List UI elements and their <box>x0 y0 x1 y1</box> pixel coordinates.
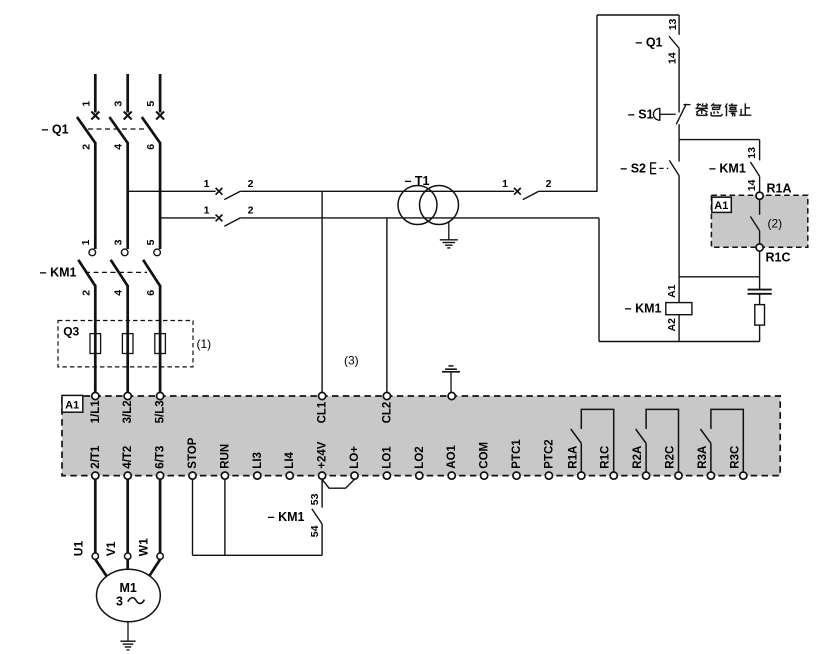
wire feed 1 to transformer <box>240 190 514 192</box>
svg-text:LI4: LI4 <box>284 451 296 468</box>
contactor coil KM1 <box>666 303 692 315</box>
wire control feed 2 corner down <box>598 218 600 342</box>
fuse-switch F4 terminal 1 <box>216 215 223 222</box>
KM1 53-54 blade <box>312 509 322 524</box>
svg-text:14: 14 <box>667 52 679 64</box>
wire control riser up <box>596 15 598 192</box>
svg-text:1: 1 <box>502 178 508 190</box>
svg-text:A1: A1 <box>714 200 728 212</box>
svg-text:2/T1: 2/T1 <box>90 445 102 469</box>
svg-text:CL2: CL2 <box>381 402 393 424</box>
wire run-stop bottom <box>193 554 323 556</box>
svg-text:– S1: – S1 <box>628 108 654 122</box>
wire R2A stub <box>645 443 647 472</box>
terminal COM <box>481 472 488 479</box>
svg-text:– KM1: – KM1 <box>268 510 305 524</box>
wire KM1 coil to bottom run <box>678 315 680 342</box>
contactor KM1 pole 3 blade <box>143 260 160 286</box>
svg-text:53: 53 <box>309 493 321 505</box>
terminal LO+ <box>351 472 358 479</box>
svg-text:PTC2: PTC2 <box>543 439 555 468</box>
relay contact R3 bracket <box>711 409 743 472</box>
svg-text:STOP: STOP <box>187 437 199 468</box>
wire STOP down <box>192 479 194 555</box>
svg-text:LO1: LO1 <box>381 446 393 469</box>
svg-text:3: 3 <box>112 239 124 245</box>
svg-text:3/L2: 3/L2 <box>122 400 134 423</box>
fuse-switch F5 terminal 1 <box>514 188 521 195</box>
svg-text:CL1: CL1 <box>317 401 329 423</box>
svg-text:RUN: RUN <box>219 444 231 469</box>
terminal 2/T1 <box>92 472 99 479</box>
svg-text:LO+: LO+ <box>349 446 361 469</box>
svg-text:(1): (1) <box>197 337 212 351</box>
svg-text:R2A: R2A <box>632 446 644 469</box>
motor terminal W1 <box>157 553 163 559</box>
terminal CL1 <box>319 392 326 399</box>
svg-text:4: 4 <box>113 144 125 150</box>
resistor R1 <box>755 305 765 326</box>
svg-text:14: 14 <box>746 179 758 191</box>
relay block A1 label <box>712 197 732 212</box>
terminal STOP <box>189 472 196 479</box>
terminal LI3 <box>254 472 261 479</box>
wire Q1 aux to S1 <box>678 48 680 112</box>
breaker Q1 pole 1 blade <box>77 117 95 143</box>
wire V1 into motor <box>126 559 129 569</box>
capacitor C1 <box>748 289 772 291</box>
terminal R3C <box>740 472 747 479</box>
transformer T1 secondary winding <box>420 186 459 225</box>
A1 block label <box>62 395 83 412</box>
fuse F3 in Q3 <box>155 334 166 354</box>
wire phase 2 KM1 to drive input <box>126 285 129 392</box>
terminal R1C <box>610 472 617 479</box>
svg-text:A1: A1 <box>666 284 678 298</box>
terminal R2C <box>675 472 682 479</box>
motor terminal V1 <box>125 553 131 559</box>
wire phase 3 Q1 to KM1 <box>159 142 162 249</box>
pushbutton S2 link <box>652 167 669 169</box>
terminal 4/T2 <box>124 472 131 479</box>
svg-text:+24V: +24V <box>317 441 329 469</box>
breaker Q1 pole 3 blade <box>142 117 160 143</box>
wire control feed 1 from phase 2 <box>128 190 216 192</box>
wire control top run <box>597 14 679 16</box>
pushbutton S1 fixed contact tick <box>684 104 691 106</box>
svg-text:V1: V1 <box>104 541 118 556</box>
wire R1C down <box>759 251 761 289</box>
terminal PTC1 <box>513 472 520 479</box>
svg-text:R3C: R3C <box>729 446 741 469</box>
breaker Q1 pole 1 terminal 1 <box>91 112 99 120</box>
pushbutton S2 blade <box>669 160 679 175</box>
wire RUN down <box>224 479 226 555</box>
svg-text:COM: COM <box>479 442 491 469</box>
svg-text:6: 6 <box>145 290 157 296</box>
svg-text:R3A: R3A <box>697 446 709 469</box>
fuse-switch F3 terminal 1 <box>216 188 223 195</box>
Q1 aux contact blade <box>669 36 679 48</box>
terminal R1C <box>756 244 763 251</box>
wire cross junction <box>679 276 760 278</box>
contactor KM1 pole 1 blade <box>78 260 95 286</box>
jumper +24V to LO+ <box>322 479 354 488</box>
breaker Q1 pole 2 blade <box>109 117 127 143</box>
svg-text:R1A: R1A <box>567 446 579 469</box>
relay contact R2 bracket <box>646 409 678 472</box>
wire capacitor to resistor <box>759 294 761 305</box>
svg-text:A2: A2 <box>666 318 678 332</box>
motor AC wave <box>128 598 145 604</box>
wire +24V down <box>321 479 323 507</box>
wire feed 2 to control loop <box>240 217 599 219</box>
wire junction to S2 <box>678 140 680 162</box>
wire R1A to relay contact <box>759 199 761 215</box>
terminal 3/L2 <box>124 392 131 399</box>
svg-text:13: 13 <box>746 147 758 159</box>
terminal R1A <box>756 192 763 199</box>
wire phase 1 KM1 to drive input <box>94 285 97 392</box>
wire CL1 drop <box>321 191 323 392</box>
wire junction to KM1 aux branch <box>679 139 760 141</box>
wire resistor to bottom run <box>759 325 761 341</box>
terminal LO1 <box>383 472 390 479</box>
terminal R3A <box>707 472 714 479</box>
contactor KM1 pole 1 terminal 1 <box>89 249 96 256</box>
svg-text:2: 2 <box>80 290 92 296</box>
fuse-switch F4 blade <box>224 218 240 226</box>
fuse holder Q3 box <box>58 321 193 367</box>
fuse F1 in Q3 <box>90 334 101 354</box>
pushbutton S1 link <box>661 113 676 115</box>
svg-text:3: 3 <box>113 101 125 107</box>
wire control bottom run <box>599 341 760 343</box>
relay contact R3 blade <box>700 429 711 443</box>
caption emergency stop <box>696 103 752 116</box>
fuse F2 in Q3 <box>122 334 133 354</box>
wire R1A stub <box>580 443 582 472</box>
soft starter block A1 <box>62 396 780 476</box>
svg-text:R1C: R1C <box>766 251 791 265</box>
svg-text:– KM1: – KM1 <box>709 162 746 176</box>
pushbutton S2 head <box>650 162 652 174</box>
svg-text:– S2: – S2 <box>620 162 646 176</box>
svg-text:U1: U1 <box>72 541 86 557</box>
wire S1 to junction <box>678 124 680 139</box>
terminal LI4 <box>286 472 293 479</box>
svg-text:4: 4 <box>113 290 125 296</box>
terminal 5/L3 <box>157 392 164 399</box>
svg-text:5: 5 <box>145 101 157 107</box>
relay contact R1 bracket <box>581 409 613 472</box>
ground at transformer T1 <box>448 222 450 240</box>
wire control feed 2 from phase 3 <box>160 217 216 219</box>
wire R3A stub <box>710 443 712 472</box>
breaker Q1 linkage <box>88 128 147 130</box>
wire incoming phase 2 <box>126 74 129 113</box>
contactor KM1 pole 2 terminal 3 <box>121 249 128 256</box>
svg-text:54: 54 <box>309 525 321 537</box>
svg-text:– Q1: – Q1 <box>635 35 662 49</box>
svg-text:2: 2 <box>546 178 552 190</box>
terminal +24V <box>319 472 326 479</box>
wire 54 down <box>321 524 323 555</box>
svg-text:1: 1 <box>80 239 92 245</box>
terminal R1A <box>578 472 585 479</box>
svg-text:6/T3: 6/T3 <box>155 446 167 469</box>
svg-text:1: 1 <box>204 205 210 217</box>
wire relay contact to R1C <box>759 231 761 244</box>
svg-text:A1: A1 <box>65 400 79 412</box>
svg-text:M1: M1 <box>120 581 137 595</box>
ground at motor <box>127 622 129 642</box>
svg-text:13: 13 <box>667 18 679 30</box>
svg-text:LI3: LI3 <box>252 452 264 469</box>
relay contact R1 blade <box>571 429 582 443</box>
pushbutton S1 blade <box>676 104 686 124</box>
transformer T1 primary winding <box>398 186 437 225</box>
wire CL2 drop <box>386 218 388 393</box>
wire incoming phase 1 <box>94 74 97 113</box>
wire top to Q1 aux <box>678 15 680 35</box>
wire motor lead V1 <box>126 479 129 553</box>
terminal earth <box>448 392 455 399</box>
svg-text:– KM1: – KM1 <box>625 302 662 316</box>
KM1 aux blade <box>750 162 759 176</box>
svg-text:LO2: LO2 <box>414 446 426 468</box>
svg-text:(2): (2) <box>768 216 783 230</box>
svg-text:R2C: R2C <box>665 446 677 469</box>
svg-text:1: 1 <box>80 101 92 107</box>
terminal 1/L1 <box>92 392 99 399</box>
terminal AO1 <box>448 472 455 479</box>
wire feed 1 to control corner <box>539 190 597 192</box>
contactor KM1 pole 3 terminal 5 <box>154 249 161 256</box>
contactor KM1 linkage <box>85 271 147 273</box>
svg-text:W1: W1 <box>137 538 151 556</box>
svg-text:1/L1: 1/L1 <box>90 400 102 424</box>
wire W1 into motor <box>146 559 160 580</box>
svg-text:R1C: R1C <box>600 446 612 469</box>
svg-text:AO1: AO1 <box>446 444 458 468</box>
fuse-switch F3 blade <box>224 191 240 199</box>
wire branch corner down <box>759 140 761 161</box>
svg-text:6: 6 <box>145 144 157 150</box>
contactor KM1 pole 2 blade <box>111 260 128 286</box>
motor terminal U1 <box>92 553 98 559</box>
wire motor lead U1 <box>94 479 97 553</box>
svg-text:– Q1: – Q1 <box>41 122 68 136</box>
terminal 6/T3 <box>157 472 164 479</box>
wire phase 2 Q1 to KM1 <box>126 142 129 249</box>
wire phase 1 Q1 to KM1 <box>94 142 97 249</box>
relay contact R1 blade <box>750 217 759 231</box>
motor M1 <box>96 569 160 621</box>
svg-text:(3): (3) <box>344 353 359 367</box>
svg-text:Q3: Q3 <box>63 324 79 338</box>
svg-text:R1A: R1A <box>767 181 792 195</box>
pushbutton S1 mushroom head <box>653 108 659 120</box>
fuse-switch F5 blade <box>523 191 539 199</box>
relay contact R2 blade <box>636 429 647 443</box>
svg-text:PTC1: PTC1 <box>511 439 523 469</box>
ground at drive earth terminal <box>449 365 454 367</box>
svg-text:2: 2 <box>80 144 92 150</box>
wire S2 down to coil junction <box>678 175 680 277</box>
terminal LO2 <box>416 472 423 479</box>
terminal R2A <box>643 472 650 479</box>
terminal RUN <box>221 472 228 479</box>
wire junction to KM1 coil <box>678 277 680 303</box>
wire motor lead W1 <box>159 479 162 553</box>
wire incoming phase 3 <box>159 74 162 113</box>
svg-text:5: 5 <box>145 239 157 245</box>
svg-text:1: 1 <box>204 178 210 190</box>
terminal CL2 <box>383 392 390 399</box>
svg-text:4/T2: 4/T2 <box>122 446 134 469</box>
svg-text:5/L3: 5/L3 <box>155 400 167 423</box>
breaker Q1 pole 3 terminal 5 <box>156 112 164 120</box>
svg-text:2: 2 <box>248 205 254 217</box>
wire KM1 aux to R1A <box>759 176 761 192</box>
wire U1 into motor <box>95 559 110 580</box>
svg-text:3: 3 <box>116 595 123 609</box>
wire phase 3 KM1 to drive input <box>159 285 162 392</box>
terminal PTC2 <box>545 472 552 479</box>
relay block A1 (starter relay output) <box>711 195 807 247</box>
breaker Q1 pole 2 terminal 3 <box>124 112 132 120</box>
svg-text:2: 2 <box>248 178 254 190</box>
svg-text:– KM1: – KM1 <box>40 265 77 279</box>
